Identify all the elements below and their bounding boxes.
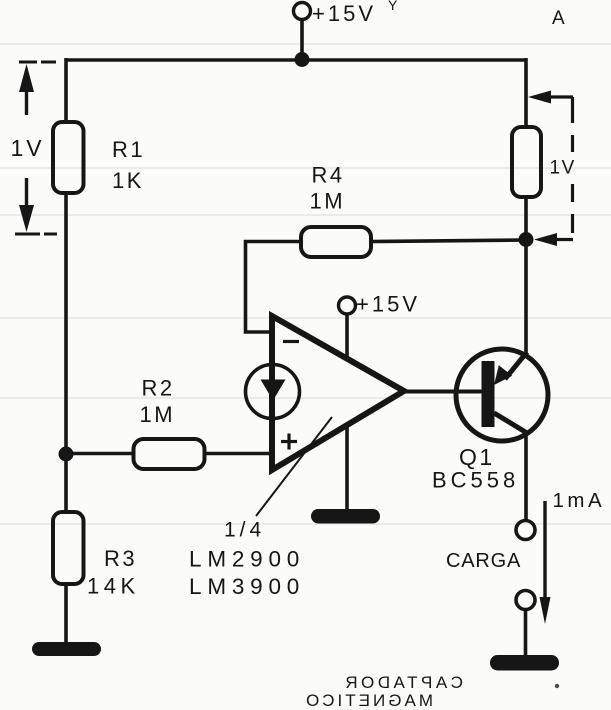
- svg-text:MAGNETICO: MAGNETICO: [303, 691, 433, 710]
- resistor R3: [53, 512, 84, 584]
- svg-text:R1: R1: [112, 137, 145, 162]
- 1mA current arrow: [543, 501, 546, 599]
- resistor R4: [301, 227, 371, 257]
- svg-text:CARGA: CARGA: [446, 550, 521, 572]
- non-inverting input sign: [281, 434, 297, 450]
- wire: R3 to ground: [64, 584, 68, 645]
- svg-text:Y: Y: [388, 0, 398, 13]
- svg-text:R3: R3: [104, 546, 137, 571]
- op-amp U1 (1/4 LM3900 Norton amp): [272, 316, 404, 470]
- svg-text:1M: 1M: [140, 402, 176, 427]
- current-mirror arrow: [261, 380, 286, 401]
- svg-text:Q1: Q1: [459, 444, 495, 470]
- wire: left branch lower: [64, 454, 68, 513]
- svg-text:1V: 1V: [550, 158, 576, 179]
- dashed 1V annotation (right): top arrow: [528, 91, 551, 104]
- Q1 emitter lead with arrow: [505, 352, 527, 379]
- svg-text:R4: R4: [312, 163, 345, 188]
- dashed 1V annotation (right): dashed vertical: [571, 97, 574, 233]
- svg-text:1V: 1V: [11, 135, 45, 161]
- transistor Q1 body: [456, 349, 548, 441]
- svg-text:A: A: [552, 8, 565, 29]
- wire: right branch upper: [524, 58, 528, 128]
- faint scan streaks (background texture): [0, 44, 611, 524]
- wire: op-amp ground lead: [345, 426, 349, 512]
- Q1 collector lead: [494, 413, 527, 433]
- load terminal (top): [516, 521, 535, 540]
- svg-text:1M: 1M: [310, 189, 346, 214]
- wire: R4 left + feedback to inverting input: [246, 242, 302, 333]
- resistor (right, current-sense): [512, 127, 541, 197]
- node: top rail junction: [295, 52, 310, 67]
- svg-text:LM3900: LM3900: [189, 574, 305, 599]
- part callout slash: [256, 417, 332, 516]
- svg-text:LM2900: LM2900: [189, 547, 305, 572]
- 1V dimension annotation (left): bottom tick: [15, 233, 57, 236]
- 1V dimension annotation (left): top tick: [19, 61, 56, 64]
- svg-text:1/4: 1/4: [224, 519, 265, 542]
- 1V dimension annotation (left): down arrow: [25, 178, 28, 206]
- svg-text:R2: R2: [142, 376, 175, 401]
- wire: left junction to R2: [66, 452, 134, 456]
- wire: collector down to load terminal: [524, 432, 528, 521]
- +15V supply terminal: [294, 3, 311, 61]
- wire: node to Q1 emitter: [524, 240, 528, 354]
- inverting input sign: [283, 340, 299, 343]
- ground (left): [32, 642, 101, 656]
- ground (op-amp): [311, 509, 380, 524]
- resistor R2: [134, 439, 205, 469]
- svg-text:+15V: +15V: [356, 292, 420, 317]
- svg-text:1mA: 1mA: [553, 489, 606, 512]
- wire: top rail: [66, 58, 526, 62]
- svg-text:1K: 1K: [112, 168, 144, 193]
- resistor R1: [53, 122, 84, 193]
- Norton current-mirror symbol: [246, 365, 300, 419]
- svg-text:14K: 14K: [87, 574, 140, 599]
- wire: right resistor to node: [524, 197, 528, 240]
- faint ghost print (scan bleed-through): [303, 0, 565, 710]
- svg-text:BC558: BC558: [432, 468, 519, 493]
- svg-text:CAPTADOR: CAPTADOR: [342, 673, 463, 692]
- Q1 base bar: [482, 361, 495, 427]
- op-amp +15V terminal: [339, 297, 356, 358]
- node: right junction: [519, 232, 534, 247]
- wire: left branch middle: [64, 193, 68, 455]
- wire: left branch upper: [64, 58, 68, 123]
- wire: R2 to non-inverting input: [205, 452, 273, 456]
- svg-text:+15V: +15V: [312, 1, 376, 26]
- node: left junction: [59, 447, 74, 462]
- ground (load): [490, 655, 559, 671]
- wire: op-amp output to Q1 base: [404, 390, 482, 394]
- dashed 1V annotation (right): bottom arrow: [534, 233, 557, 246]
- 1V dimension annotation (left): up arrow: [25, 88, 28, 115]
- wire: load terminal to ground: [524, 609, 528, 657]
- wire: R4 right to node: [371, 240, 526, 242]
- load terminal (bottom): [516, 591, 535, 610]
